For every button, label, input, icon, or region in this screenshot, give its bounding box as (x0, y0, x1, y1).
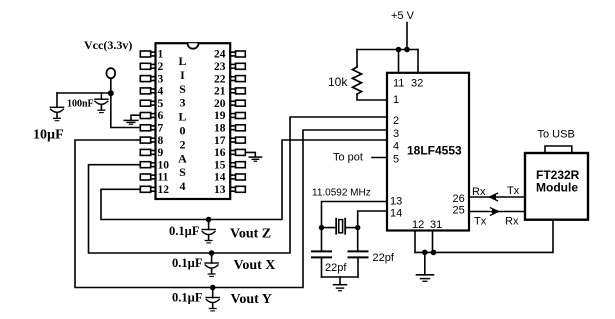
USB connector staple (545, 146, 572, 153)
svg-text:5: 5 (393, 153, 399, 165)
svg-text:3: 3 (180, 96, 186, 110)
svg-text:4: 4 (158, 86, 164, 98)
svg-text:To pot: To pot (333, 151, 363, 163)
accelerometer U1 LIS3L02AS4 body (156, 43, 231, 199)
svg-text:Rx: Rx (472, 186, 486, 198)
ground at U1 pin 6 (124, 115, 140, 124)
svg-text:2: 2 (158, 61, 164, 73)
svg-text:L: L (178, 54, 186, 68)
wire ground rail to FT232R (415, 220, 553, 253)
FT232R module box (525, 153, 588, 220)
svg-text:Vout Y: Vout Y (231, 292, 272, 307)
svg-text:0.1µF: 0.1µF (172, 256, 203, 270)
U1 left pin numbers 1-12 (158, 49, 170, 196)
wire To pot to MCU pin 5 (372, 157, 387, 159)
resistor 10k (328, 50, 387, 101)
svg-text:Tx: Tx (474, 216, 487, 228)
arrow left on Rx wire (490, 193, 498, 200)
svg-text:8: 8 (158, 135, 164, 147)
node crystal right (355, 225, 360, 230)
wire MCU pin 12 down (414, 231, 416, 253)
wire MCU pin 25 to FT232R (Tx-Rx) (469, 211, 525, 213)
svg-text:11.0592 MHz: 11.0592 MHz (312, 188, 371, 199)
svg-text:2: 2 (393, 115, 399, 127)
svg-text:6: 6 (158, 110, 164, 122)
svg-text:Vout Z: Vout Z (230, 227, 271, 242)
capacitor 22pf right (349, 251, 395, 277)
svg-text:100nF: 100nF (67, 99, 94, 110)
wire MCU pin 26 to FT232R (Rx-Tx) (469, 196, 525, 198)
svg-text:Vout X: Vout X (234, 258, 276, 273)
node ground rail left (422, 250, 428, 256)
MCU pin labels top 11 32 (393, 78, 423, 90)
wire +5V rail (357, 49, 418, 51)
svg-text:1: 1 (158, 49, 164, 61)
svg-text:21: 21 (214, 86, 226, 98)
wire Vcc horizontal rail (57, 92, 111, 94)
svg-text:Vcc(3.3v): Vcc(3.3v) (84, 38, 132, 52)
svg-text:13: 13 (214, 184, 226, 196)
wire U1 pin10 to Vout X row to MCU pin 2 (89, 117, 388, 253)
svg-text:I: I (180, 68, 185, 82)
svg-text:10: 10 (158, 159, 170, 171)
svg-text:10k: 10k (328, 75, 348, 89)
svg-text:7: 7 (158, 123, 164, 135)
MCU pin labels right 26 25 (453, 193, 465, 217)
svg-text:20: 20 (214, 98, 226, 110)
capacitor 0.1uF (X) (172, 253, 218, 276)
svg-text:26: 26 (453, 193, 465, 205)
ground MCU (417, 252, 434, 281)
svg-text:18: 18 (214, 123, 226, 135)
wire Vcc junction to accel pin 7 (111, 93, 141, 127)
ground crystal (334, 277, 347, 291)
svg-text:22: 22 (214, 73, 226, 85)
wire Vcc terminal to junction (110, 78, 112, 93)
capacitor 0.1uF (Y) (172, 288, 219, 311)
svg-text:S: S (179, 165, 186, 179)
wire crystal left node to MCU pin 13 (322, 202, 388, 252)
svg-text:0.1µF: 0.1µF (169, 224, 200, 238)
MCU pin labels left 1-5 (393, 94, 399, 165)
svg-text:To USB: To USB (538, 129, 575, 141)
svg-text:22pf: 22pf (325, 262, 347, 274)
labels Tx Rx bottom wire (474, 216, 519, 228)
svg-text:3: 3 (393, 128, 399, 140)
svg-text:14: 14 (214, 172, 226, 184)
svg-text:Rx: Rx (505, 216, 519, 228)
svg-text:13: 13 (390, 196, 402, 208)
node Vout X junction (209, 250, 215, 256)
svg-text:+5 V: +5 V (391, 10, 415, 22)
svg-text:0.1µF: 0.1µF (172, 290, 203, 304)
svg-text:3: 3 (158, 73, 164, 85)
svg-text:10µF: 10µF (33, 128, 64, 143)
svg-text:22pf: 22pf (373, 252, 395, 264)
wire MCU pin 31 down (432, 231, 434, 253)
MCU pin labels bottom 12 31 (412, 219, 442, 231)
svg-text:Tx: Tx (507, 185, 520, 197)
svg-text:Module: Module (536, 181, 578, 195)
crystal 11.0592 MHz (312, 188, 371, 234)
svg-text:A: A (178, 151, 187, 165)
capacitor 10uF (33, 93, 64, 143)
svg-text:S: S (179, 82, 186, 96)
U1 right pin numbers 24-13 (214, 49, 226, 196)
svg-text:11: 11 (158, 172, 169, 184)
node +5V junction left (396, 47, 402, 53)
svg-text:18LF4553: 18LF4553 (407, 144, 462, 158)
label FT232R Module (536, 168, 580, 195)
svg-text:14: 14 (390, 208, 402, 220)
wire crystal right node to MCU pin 14 (358, 211, 387, 251)
svg-text:L: L (178, 110, 186, 124)
U1 left pins 1-12 (140, 51, 155, 192)
svg-text:31: 31 (430, 219, 442, 231)
svg-text:16: 16 (214, 147, 226, 159)
node Vout Y junction (210, 285, 216, 291)
svg-text:4: 4 (180, 179, 186, 193)
svg-text:5: 5 (158, 98, 164, 110)
svg-text:0: 0 (180, 124, 186, 138)
svg-text:15: 15 (214, 159, 226, 171)
wire U1 pin12 to Vout Z row to MCU pin 4 (101, 140, 387, 220)
svg-text:1: 1 (393, 94, 399, 106)
node ground rail right (431, 250, 437, 256)
svg-text:12: 12 (412, 219, 424, 231)
capacitor 22pf left (312, 251, 347, 277)
svg-text:2: 2 (180, 137, 186, 151)
node Vout Z junction (206, 217, 212, 223)
svg-text:19: 19 (214, 110, 226, 122)
node +5V junction right (404, 47, 410, 53)
U1 right pins 24-13 (230, 51, 245, 192)
svg-text:12: 12 (158, 184, 170, 196)
svg-text:32: 32 (411, 78, 423, 90)
node crystal left (319, 225, 324, 230)
svg-text:17: 17 (214, 135, 226, 147)
capacitor 100nF (67, 93, 108, 113)
svg-text:11: 11 (393, 78, 404, 90)
svg-text:23: 23 (214, 61, 226, 73)
svg-text:9: 9 (158, 147, 164, 159)
MCU pin labels 13 14 (390, 196, 402, 220)
U1 vertical label LIS3L02AS4 (178, 54, 187, 193)
svg-text:24: 24 (214, 49, 226, 61)
capacitor 0.1uF (Z) (169, 220, 215, 243)
wire rail to MCU pin 11 (398, 50, 400, 73)
svg-text:25: 25 (453, 205, 465, 217)
svg-text:4: 4 (393, 140, 399, 152)
wire crystal caps bottom rail (322, 276, 359, 278)
node Vcc junction (108, 90, 114, 96)
wire +5V stem (406, 23, 408, 50)
wire U1 pin8 to Vout Y row to MCU pin 3 (75, 130, 387, 288)
MCU 18LF4553 box (387, 73, 469, 231)
labels Rx Tx top wire (472, 185, 520, 198)
ground at U1 pin 16 (246, 152, 262, 161)
arrow right on Tx wire (491, 208, 499, 215)
power terminal Vcc(3.3v) (84, 38, 132, 78)
wire rail to MCU pin 32 (417, 50, 419, 73)
